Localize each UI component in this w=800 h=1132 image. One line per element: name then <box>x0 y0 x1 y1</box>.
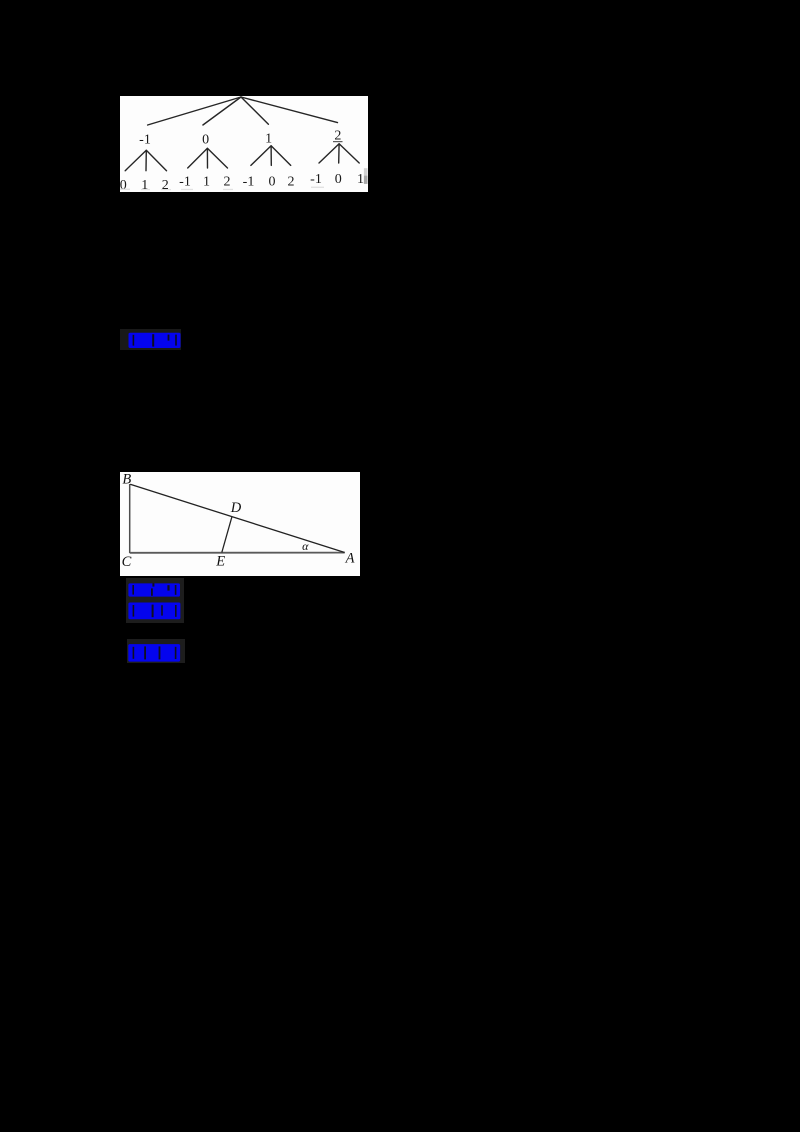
comment marker [dian ping] (blue, blurred) <box>120 329 181 350</box>
svg-text:2: 2 <box>224 175 231 190</box>
svg-text:-1: -1 <box>243 175 255 190</box>
svg-text:1: 1 <box>265 132 272 147</box>
svg-text:0: 0 <box>202 133 209 148</box>
svg-text:-1: -1 <box>179 175 191 190</box>
wire side CA <box>130 552 345 554</box>
wire side BC <box>129 484 131 553</box>
svg-text:-1: -1 <box>310 172 322 187</box>
wires subtree under 1 <box>251 146 291 166</box>
figure: probability tree diagram (white panel) <box>120 96 368 192</box>
wire segment DE <box>222 517 232 553</box>
svg-text:-1: -1 <box>139 133 151 148</box>
svg-text:C: C <box>122 554 132 570</box>
wire root to branch 1 <box>241 97 268 124</box>
svg-text:α: α <box>302 539 309 553</box>
gray artifact bar right edge <box>364 168 368 175</box>
svg-text:1: 1 <box>357 172 364 187</box>
svg-text:1: 1 <box>203 175 210 190</box>
wires subtree under 2 <box>319 144 359 163</box>
figure: right triangle ABC with DE (white panel) <box>120 472 360 576</box>
svg-text:0: 0 <box>335 172 342 187</box>
marker [jie da] (blue) <box>127 639 185 663</box>
underline under level-1 label 2 <box>333 141 343 142</box>
wires subtree under 0 <box>188 148 228 168</box>
wire root to branch 2 <box>241 97 338 123</box>
svg-text:2: 2 <box>288 175 295 190</box>
svg-text:E: E <box>215 553 225 569</box>
wires subtree under -1 <box>125 150 166 171</box>
wire side BA (hypotenuse) <box>130 484 345 552</box>
svg-text:A: A <box>345 551 355 567</box>
marker [kao dian] (blue) <box>126 578 184 623</box>
node label -1 (level 1) <box>120 129 364 194</box>
wire root to branch 0 <box>203 97 241 125</box>
svg-text:B: B <box>122 472 131 488</box>
faint underline artifacts under leaves <box>120 187 324 191</box>
svg-text:0: 0 <box>269 175 276 190</box>
wire root to branch -1 <box>148 97 241 125</box>
svg-text:D: D <box>230 500 242 516</box>
marker [fen xi] (blue) <box>128 602 181 620</box>
